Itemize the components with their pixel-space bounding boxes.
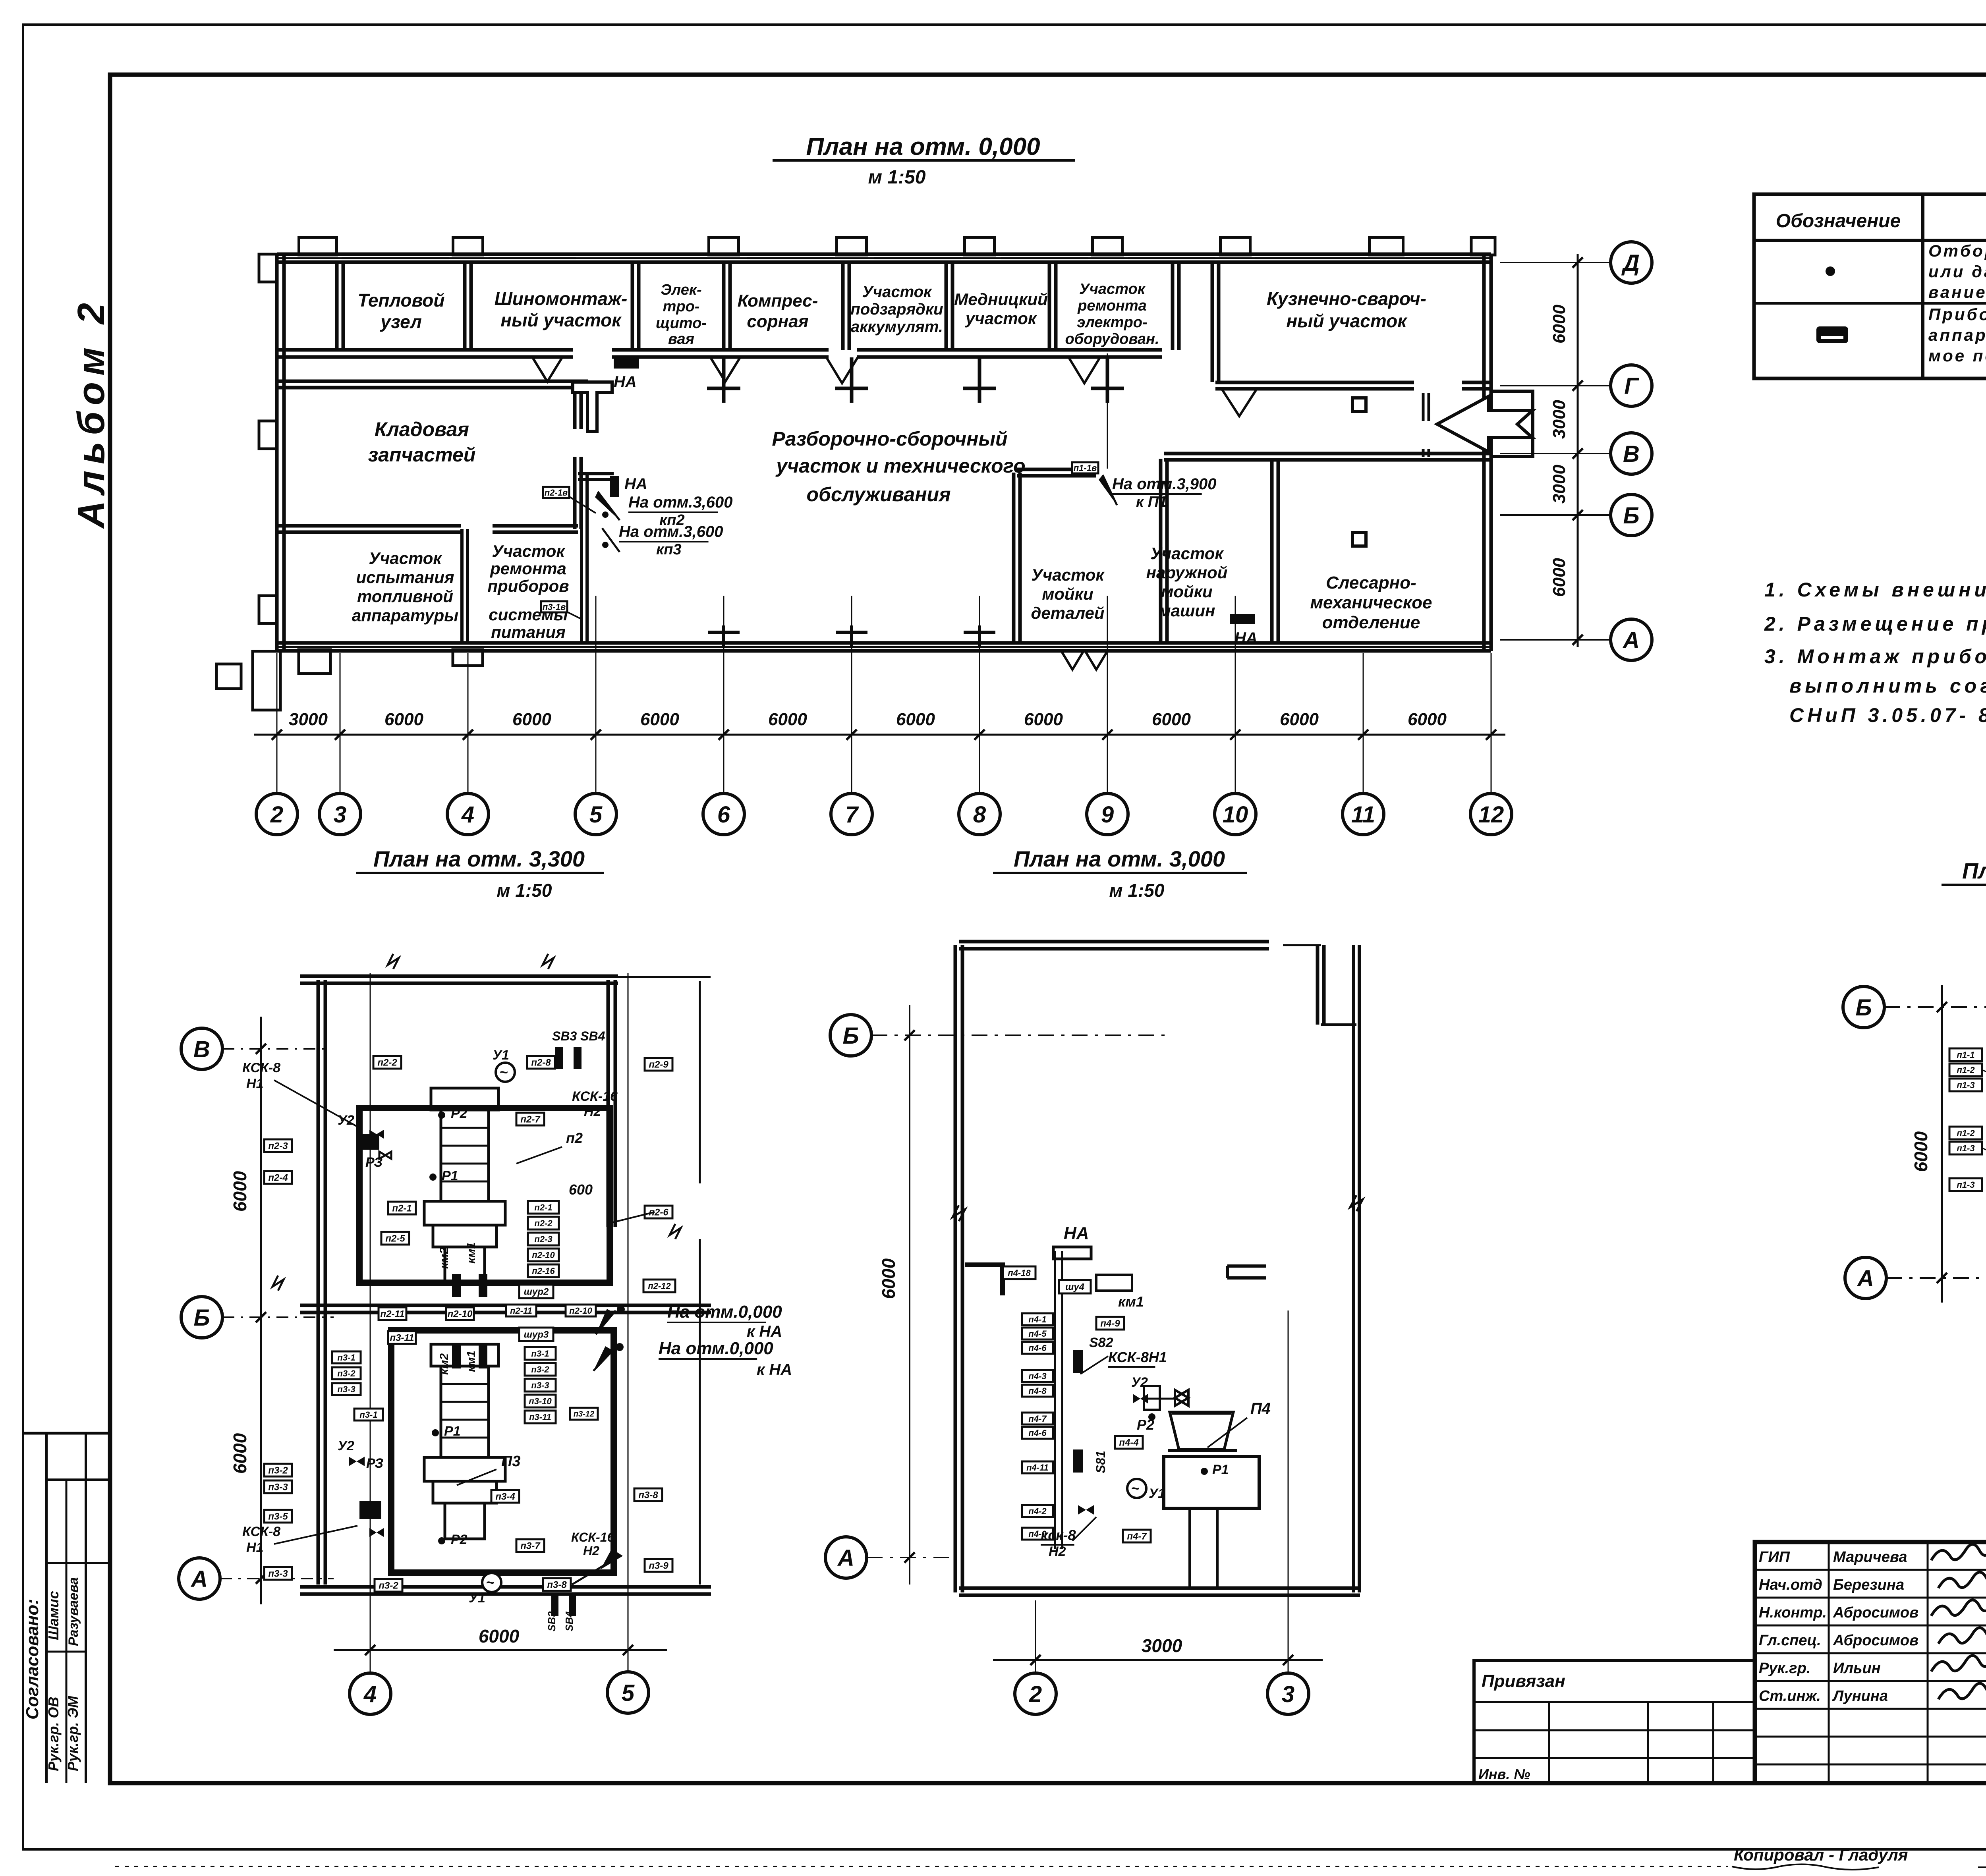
- svg-text:6000: 6000: [1911, 1131, 1931, 1172]
- svg-text:Б: Б: [193, 1305, 210, 1331]
- svg-text:6000: 6000: [878, 1258, 899, 1299]
- svg-text:щито-: щито-: [656, 315, 707, 332]
- column mark: [835, 387, 868, 390]
- svg-text:КСК-8Н1: КСК-8Н1: [1108, 1349, 1167, 1365]
- svg-text:п3-8: п3-8: [547, 1580, 567, 1590]
- svg-text:шу4: шу4: [1065, 1282, 1084, 1293]
- svg-text:S82: S82: [1089, 1335, 1113, 1350]
- svg-text:6000: 6000: [768, 710, 807, 729]
- grid circle 10: [1215, 793, 1256, 835]
- svg-text:аккумулят.: аккумулят.: [851, 318, 943, 336]
- window bottom: [1255, 646, 1366, 648]
- door leaf: [826, 357, 858, 383]
- svg-text:км1: км1: [1118, 1293, 1144, 1310]
- grid axis 5: [628, 973, 629, 1672]
- svg-text:п3-2: п3-2: [379, 1581, 398, 1591]
- label box п2-12: [643, 1280, 675, 1292]
- svg-text:к НА: к НА: [757, 1361, 792, 1378]
- svg-text:п3-2: п3-2: [531, 1365, 549, 1374]
- svg-text:На отм.3,600: На отм.3,600: [619, 523, 723, 540]
- svg-text:машин: машин: [1159, 601, 1215, 620]
- svg-text:У1: У1: [493, 1048, 509, 1063]
- label box п4-4: [1115, 1436, 1143, 1449]
- svg-text:п3-1: п3-1: [337, 1353, 355, 1363]
- pilaster left: [259, 596, 277, 623]
- label box п4-7: [1022, 1413, 1053, 1424]
- door leaf: [532, 357, 562, 382]
- svg-text:Шамис: Шамис: [45, 1591, 62, 1640]
- svg-text:Отборное устройство, первичный: Отборное устройство, первичный измерител…: [1928, 241, 1986, 260]
- svg-text:п3-3: п3-3: [268, 1482, 288, 1493]
- grid circle 4: [350, 1673, 391, 1714]
- grid circle 8: [959, 793, 1000, 835]
- device bar: [551, 1596, 558, 1616]
- exterior top wall: [277, 253, 1491, 256]
- label box п1-2: [1949, 1127, 1982, 1139]
- svg-text:SВ4: SВ4: [563, 1611, 575, 1631]
- svg-text:5: 5: [622, 1680, 635, 1706]
- svg-text:В: В: [1623, 441, 1640, 467]
- svg-text:приборов: приборов: [487, 577, 569, 595]
- room partition: [945, 264, 948, 350]
- storeroom right wall lower: [573, 457, 577, 529]
- svg-text:3000: 3000: [289, 710, 328, 729]
- svg-text:У2: У2: [1131, 1375, 1148, 1390]
- svg-text:Участок: Участок: [1031, 566, 1105, 584]
- label box п2-10: [528, 1249, 559, 1261]
- label box п4-5: [1022, 1328, 1053, 1339]
- NA device on corridor: [614, 358, 639, 369]
- slesarno left wall: [1270, 459, 1274, 643]
- personnel row: [1755, 1736, 1986, 1738]
- testing room right wall: [460, 529, 464, 643]
- svg-text:Р2: Р2: [451, 1532, 468, 1547]
- label box п2-1: [388, 1202, 416, 1214]
- wall stub near grid5: [578, 472, 614, 475]
- label box п4-6: [1022, 1427, 1053, 1439]
- label box п2-3: [264, 1139, 292, 1152]
- grid axis 2: [1035, 1600, 1036, 1673]
- svg-text:А: А: [837, 1545, 854, 1571]
- label box п4-1: [1022, 1313, 1053, 1325]
- svg-text:п4-11: п4-11: [1026, 1463, 1049, 1473]
- svg-text:~: ~: [486, 1574, 495, 1590]
- window: [489, 257, 576, 259]
- window: [747, 257, 834, 259]
- svg-text:3. Монтаж приборов и средств а: 3. Монтаж приборов и средств автоматизац…: [1764, 645, 1986, 668]
- grid axis 8: [979, 596, 980, 794]
- label box п3-8: [543, 1578, 571, 1591]
- svg-text:~: ~: [500, 1064, 508, 1080]
- svg-text:оборудован.: оборудован.: [1065, 331, 1159, 347]
- porch block: [253, 651, 280, 710]
- svg-text:Участок: Участок: [1150, 544, 1224, 563]
- svg-text:п1-2: п1-2: [1957, 1128, 1975, 1138]
- svg-text:План на отм. 0,000: План на отм. 0,000: [806, 133, 1040, 160]
- personnel row: [1755, 1680, 1986, 1682]
- svg-text:п4-2: п4-2: [1028, 1506, 1047, 1516]
- washing room left wall: [1159, 459, 1163, 643]
- svg-text:ремонта: ремонта: [1077, 297, 1147, 314]
- svg-text:Альбом 2: Альбом 2: [70, 297, 112, 529]
- pilaster: [299, 237, 337, 255]
- svg-text:НА: НА: [1234, 629, 1258, 647]
- svg-text:У2: У2: [338, 1113, 354, 1128]
- svg-text:топливной: топливной: [357, 587, 453, 606]
- NA device bottom: [1230, 614, 1255, 624]
- svg-text:7: 7: [845, 802, 859, 828]
- 3300 lower room enclosure: [391, 1330, 614, 1573]
- door leaf bottom: [1084, 650, 1108, 670]
- grid axis 4: [468, 653, 469, 794]
- svg-text:600: 600: [569, 1181, 593, 1198]
- svg-text:План на отм. 3,000: План на отм. 3,000: [1014, 846, 1225, 871]
- svg-text:Рук.гр.: Рук.гр.: [1759, 1660, 1810, 1677]
- 3000 right wall: [1352, 945, 1355, 1592]
- svg-text:Абросимов: Абросимов: [1833, 1604, 1918, 1621]
- svg-text:У1: У1: [469, 1590, 485, 1606]
- room partition: [335, 264, 339, 350]
- svg-text:Рук.гр. ЭМ: Рук.гр. ЭМ: [65, 1696, 81, 1771]
- pilaster: [837, 237, 867, 255]
- column mark: [707, 387, 740, 390]
- svg-text:Участок: Участок: [862, 283, 932, 301]
- svg-text:3000: 3000: [1549, 400, 1569, 439]
- axis leader В: [1500, 453, 1611, 454]
- svg-text:п2-1: п2-1: [392, 1203, 411, 1214]
- svg-text:SВ3: SВ3: [546, 1611, 558, 1631]
- svg-text:Р1: Р1: [1212, 1462, 1229, 1477]
- window: [1406, 257, 1470, 259]
- label box п1-1: [1949, 1048, 1982, 1061]
- device bar: [452, 1345, 461, 1368]
- label box п2-6: [645, 1206, 672, 1218]
- soglasovano table: [23, 1432, 110, 1435]
- svg-text:6000: 6000: [384, 710, 423, 729]
- interior wall: [612, 348, 829, 352]
- interior wall: [277, 348, 573, 352]
- pilaster bottom: [453, 650, 483, 666]
- svg-text:Д: Д: [1621, 250, 1640, 276]
- pilaster: [1093, 237, 1122, 255]
- grid axis 6: [723, 596, 724, 794]
- svg-text:п3-8: п3-8: [638, 1490, 658, 1501]
- axis leader Б 3000: [871, 1035, 1168, 1036]
- device bar: [479, 1345, 487, 1368]
- dim tick 7: [846, 730, 857, 740]
- device bar: [479, 1274, 487, 1297]
- label box п2-7: [516, 1113, 544, 1125]
- svg-text:Инв. №: Инв. №: [1478, 1766, 1530, 1782]
- svg-text:Привязан: Привязан: [1482, 1671, 1565, 1691]
- svg-text:Абросимов: Абросимов: [1833, 1632, 1918, 1649]
- svg-text:деталей: деталей: [1031, 604, 1104, 622]
- machine box 3000: [1164, 1457, 1259, 1508]
- device bar: [452, 1274, 461, 1297]
- dim line left 3900: [1941, 985, 1943, 1303]
- parts washing left wall: [1012, 473, 1016, 643]
- svg-text:узел: узел: [380, 311, 422, 332]
- svg-text:п2-2: п2-2: [377, 1058, 397, 1068]
- svg-text:Н2: Н2: [584, 1104, 601, 1119]
- svg-text:аппаратура, другое оборудовани: аппаратура, другое оборудование, устанав…: [1928, 326, 1986, 344]
- svg-text:12: 12: [1478, 802, 1504, 828]
- tambour: [1491, 391, 1533, 457]
- window bottom: [874, 646, 961, 648]
- column mark bottom: [836, 631, 867, 634]
- svg-text:ный участок: ный участок: [500, 310, 622, 330]
- axis leader А: [1500, 639, 1611, 641]
- window bottom: [496, 646, 572, 648]
- axis leader В: [222, 1048, 330, 1050]
- label box п1-3: [1949, 1142, 1982, 1154]
- label box п2-16: [528, 1264, 559, 1277]
- label box п2-5: [381, 1232, 409, 1245]
- pilaster: [965, 237, 995, 255]
- grid circle 5: [575, 793, 616, 835]
- svg-text:к НА: к НА: [747, 1323, 782, 1340]
- legend device symbol: [1816, 326, 1848, 343]
- svg-text:п2: п2: [566, 1130, 583, 1146]
- svg-text:п2-3: п2-3: [268, 1141, 288, 1152]
- svg-text:6000: 6000: [1152, 710, 1191, 729]
- signature: [1938, 1683, 1986, 1699]
- device bar: [574, 1047, 582, 1069]
- svg-text:п2-12: п2-12: [648, 1281, 671, 1291]
- svg-text:Медницкий: Медницкий: [954, 290, 1048, 309]
- svg-text:п1-3: п1-3: [1957, 1080, 1974, 1090]
- column square: [1352, 398, 1366, 411]
- label box п4-7: [1123, 1530, 1151, 1542]
- leader: [1982, 1070, 1986, 1087]
- svg-text:п3-1: п3-1: [359, 1410, 377, 1420]
- device box 3000: [1096, 1275, 1132, 1291]
- svg-text:отделение: отделение: [1322, 613, 1420, 632]
- svg-text:Разборочно-сборочный: Разборочно-сборочный: [772, 428, 1007, 450]
- label box п3-8: [634, 1488, 662, 1501]
- svg-text:п2-16: п2-16: [532, 1266, 555, 1276]
- svg-text:п4-9: п4-9: [1100, 1318, 1120, 1329]
- grid circle 12: [1470, 793, 1512, 835]
- svg-text:п3-4: п3-4: [495, 1492, 515, 1502]
- legend column divider: [1921, 194, 1924, 378]
- right dimension column: [1577, 254, 1579, 647]
- axis leader Б: [1500, 514, 1611, 516]
- room partition: [722, 264, 726, 350]
- label box п2-2: [528, 1217, 559, 1229]
- svg-text:питания: питания: [491, 623, 566, 641]
- grid circle 5: [607, 1672, 649, 1713]
- column mark bottom: [708, 631, 740, 634]
- dim tick 8: [974, 730, 985, 740]
- svg-text:п3-2: п3-2: [268, 1465, 288, 1476]
- personnel row: [1755, 1597, 1986, 1599]
- entrance arrow: [1437, 396, 1532, 452]
- device bar: [555, 1047, 563, 1069]
- svg-text:3: 3: [334, 802, 346, 828]
- svg-text:Рук.гр. ОВ: Рук.гр. ОВ: [45, 1697, 62, 1772]
- svg-text:п4-7: п4-7: [1028, 1414, 1047, 1424]
- svg-text:10: 10: [1223, 802, 1248, 828]
- door leaf: [710, 357, 740, 382]
- window: [1001, 257, 1088, 259]
- label box п3-4: [491, 1490, 519, 1503]
- svg-text:СНиП 3.05.07- 85 Госстроя: СНиП 3.05.07- 85 Госстроя СССР.: [1789, 704, 1986, 726]
- svg-text:4: 4: [461, 802, 474, 828]
- label box п4-6: [1022, 1342, 1053, 1354]
- svg-text:выполнить согласно нормам и пр: выполнить согласно нормам и правилам: [1789, 675, 1986, 697]
- axis leader А: [220, 1578, 334, 1579]
- svg-text:п1-1: п1-1: [1957, 1050, 1974, 1060]
- svg-text:п2-7: п2-7: [520, 1114, 541, 1125]
- svg-text:электро-: электро-: [1077, 314, 1147, 331]
- pilaster: [453, 237, 483, 255]
- grid circle Б: [181, 1297, 222, 1338]
- legend header line: [1754, 239, 1986, 242]
- svg-text:мойки: мойки: [1161, 582, 1212, 601]
- svg-text:сорная: сорная: [747, 312, 808, 331]
- svg-text:запчастей: запчастей: [368, 444, 476, 466]
- 3300 bottom wall: [300, 1585, 711, 1589]
- svg-text:Участок: Участок: [492, 542, 565, 560]
- svg-text:КСК-8: КСК-8: [242, 1060, 280, 1075]
- dim tick 9: [1102, 730, 1113, 740]
- window bottom: [302, 646, 437, 648]
- svg-text:п2-8: п2-8: [531, 1058, 551, 1068]
- svg-text:п4-18: п4-18: [1008, 1268, 1031, 1278]
- svg-text:РЗ: РЗ: [366, 1456, 383, 1471]
- column mark: [963, 387, 996, 390]
- svg-text:п2-1: п2-1: [534, 1202, 552, 1212]
- grid circle Б: [1843, 986, 1884, 1028]
- personnel row: [1755, 1652, 1986, 1654]
- forge room bottom wall: [1215, 381, 1414, 384]
- svg-text:У1: У1: [1149, 1486, 1165, 1501]
- svg-text:3000: 3000: [1549, 465, 1569, 504]
- personnel row: [1755, 1569, 1986, 1571]
- svg-text:п3-1: п3-1: [531, 1349, 549, 1359]
- device bar: [569, 1596, 576, 1616]
- svg-text:На отм.3,900: На отм.3,900: [1112, 475, 1217, 493]
- label box п2-11: [506, 1305, 536, 1316]
- svg-text:План на отм. 3,300: План на отм. 3,300: [373, 846, 585, 871]
- svg-text:участок и технического: участок и технического: [775, 455, 1025, 477]
- dim line left 3000: [909, 1005, 910, 1585]
- svg-text:п3-1в: п3-1в: [543, 602, 566, 612]
- personnel row: [1755, 1625, 1986, 1627]
- label box шур2: [519, 1285, 553, 1298]
- grid axis 4: [370, 973, 371, 1673]
- window bottom: [620, 646, 707, 648]
- svg-text:п2-1в: п2-1в: [545, 488, 568, 498]
- svg-text:Б: Б: [842, 1023, 859, 1049]
- grid circle 2: [256, 793, 298, 835]
- svg-text:ный участок: ный участок: [1286, 311, 1408, 331]
- svg-text:6000: 6000: [1549, 305, 1569, 344]
- svg-text:наружной: наружной: [1146, 563, 1228, 582]
- pilaster: [1370, 237, 1403, 255]
- svg-text:м 1:50: м 1:50: [1109, 880, 1165, 901]
- signature: [1938, 1572, 1986, 1588]
- forge room left wall: [1211, 264, 1214, 382]
- pilaster: [1471, 237, 1495, 255]
- leader: [1982, 1148, 1986, 1164]
- device bar: [359, 1501, 381, 1519]
- machine upper 3300: [431, 1088, 498, 1110]
- valves 3000: [1133, 1394, 1148, 1403]
- svg-text:6: 6: [717, 802, 730, 828]
- exterior left wall: [275, 254, 279, 651]
- axis leader Б 3900: [1884, 1006, 1986, 1008]
- svg-text:аппаратуры: аппаратуры: [352, 606, 458, 625]
- T column: [573, 382, 612, 431]
- label box п3-1: [332, 1351, 361, 1363]
- svg-text:Согласовано:: Согласовано:: [23, 1599, 42, 1720]
- svg-text:На отм.3,600: На отм.3,600: [628, 494, 733, 511]
- service duct 3000: [1054, 1251, 1056, 1549]
- column mark: [1091, 387, 1124, 390]
- svg-text:КСК-16: КСК-16: [572, 1089, 618, 1104]
- label box п1-3: [1949, 1079, 1982, 1091]
- svg-text:6000: 6000: [1024, 710, 1063, 729]
- signature: [1931, 1544, 1986, 1560]
- label box п3-5: [264, 1510, 292, 1523]
- grid axis 5: [595, 596, 597, 794]
- label box п4-18: [1003, 1266, 1036, 1279]
- personnel row: [1755, 1708, 1986, 1710]
- svg-text:кск-8: кск-8: [1041, 1527, 1076, 1543]
- instrument room right wall: [580, 475, 583, 643]
- svg-text:5: 5: [589, 802, 603, 828]
- device cluster: [359, 1134, 379, 1150]
- grid circle 9: [1087, 793, 1128, 835]
- svg-text:км1: км1: [465, 1351, 478, 1372]
- bottom rule 2: [1978, 1866, 1986, 1868]
- 3000 step: [1321, 1023, 1356, 1026]
- label box п3-2: [525, 1363, 556, 1376]
- svg-text:Б: Б: [1623, 503, 1639, 529]
- svg-text:п4-3: п4-3: [1028, 1371, 1046, 1381]
- label box п3-3: [264, 1480, 292, 1493]
- grid axis 2: [276, 653, 278, 794]
- dim line left 3300: [260, 1017, 262, 1604]
- svg-text:п3-11: п3-11: [390, 1333, 414, 1343]
- grid axis 7: [851, 596, 852, 794]
- window bottom: [747, 646, 834, 648]
- storeroom right wall upper: [573, 384, 577, 429]
- label box п2-2: [373, 1056, 401, 1069]
- break marks 3000: [952, 1205, 965, 1221]
- svg-text:11: 11: [1351, 802, 1375, 828]
- grid circle Б: [1611, 494, 1652, 536]
- dim tick 6: [719, 730, 729, 740]
- grid axis 12: [1491, 653, 1492, 794]
- svg-text:Н2: Н2: [1049, 1544, 1066, 1559]
- svg-text:6000: 6000: [512, 710, 551, 729]
- room partition: [463, 264, 467, 350]
- parts washing top wall: [1017, 468, 1096, 471]
- svg-text:6000: 6000: [479, 1626, 520, 1646]
- svg-text:Н2: Н2: [583, 1544, 599, 1558]
- title block: [1755, 1542, 1986, 1783]
- svg-text:Участок: Участок: [1079, 281, 1146, 297]
- label box п3-2: [264, 1464, 292, 1476]
- 3300 upper room enclosure: [359, 1108, 610, 1283]
- label box п3-1: [354, 1409, 383, 1421]
- svg-text:п4-6: п4-6: [1028, 1428, 1047, 1438]
- pilaster: [1221, 237, 1250, 255]
- svg-text:~: ~: [1131, 1480, 1140, 1496]
